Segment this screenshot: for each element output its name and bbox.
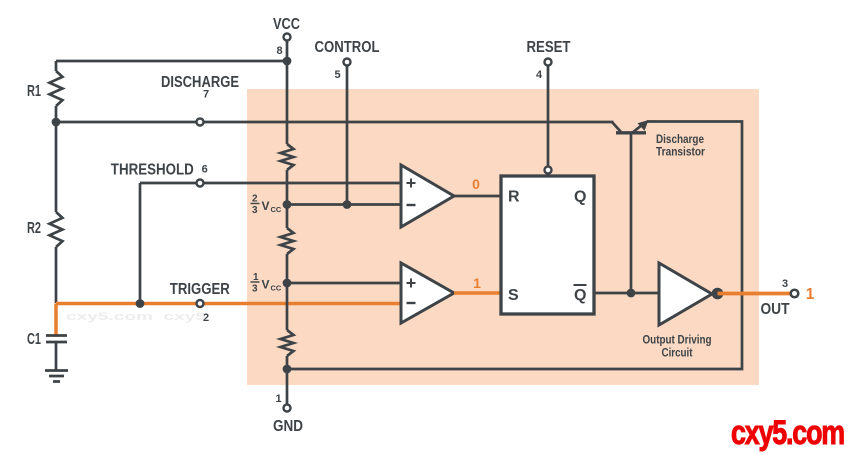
wire: R2 lead (55, 122, 58, 212)
capacitor C1 (46, 336, 67, 343)
svg-text:R: R (508, 189, 520, 206)
op-amp comparator 1 (threshold) (401, 165, 454, 227)
wire: R2 bottom lead (55, 247, 58, 303)
wire: C1 to ground (55, 342, 58, 370)
node: 1/3 Vcc (283, 279, 292, 288)
output buffer (output driving circuit) (659, 263, 712, 325)
node: output dot (712, 288, 724, 300)
terminal CONTROL pin 5 (344, 59, 351, 66)
svg-text:1: 1 (275, 393, 281, 405)
resistor R1 (50, 71, 63, 106)
svg-text:GND: GND (273, 418, 303, 435)
wire: threshold line (140, 182, 401, 185)
terminal DISCHARGE pin 7 (197, 119, 204, 126)
flip-flop U1 (501, 176, 594, 314)
terminal GND pin 1 (284, 405, 291, 412)
wire: Vcc divider chain (286, 61, 289, 144)
label 2/3 Vcc (251, 194, 282, 217)
wire (286, 170, 289, 228)
svg-text:Circuit: Circuit (662, 348, 693, 360)
resistor (divider top) (281, 144, 294, 170)
svg-text:cxy5.com: cxy5.com (731, 414, 844, 452)
terminal TRIGGER pin 2 (197, 300, 204, 307)
wire: discharge line (56, 121, 614, 124)
ground (45, 371, 68, 382)
svg-text:1: 1 (473, 275, 481, 291)
reset active-low bubble (545, 167, 552, 174)
svg-text:5: 5 (334, 69, 340, 81)
node: VCC junction (283, 57, 292, 66)
svg-text:7: 7 (203, 89, 209, 101)
svg-text:THRESHOLD: THRESHOLD (111, 162, 194, 179)
svg-text:DISCHARGE: DISCHARGE (161, 74, 239, 91)
node: control junction (343, 200, 352, 209)
svg-text:3: 3 (252, 284, 258, 295)
svg-text:OUT: OUT (761, 301, 790, 318)
svg-text:TRIGGER: TRIGGER (170, 281, 230, 298)
svg-text:8: 8 (276, 45, 282, 57)
svg-text:Q: Q (574, 287, 586, 304)
IC internal region (shaded) (247, 89, 759, 385)
terminal OUT pin 3 (791, 290, 799, 298)
svg-text:3: 3 (782, 278, 788, 290)
svg-text:6: 6 (202, 164, 208, 176)
resistor R2 (50, 212, 63, 247)
svg-text:C1: C1 (27, 331, 41, 348)
wire: transistor to Q-bar node (630, 133, 633, 293)
wire: trigger drop to C1 (orange) (54, 304, 58, 336)
svg-text:CC: CC (271, 284, 282, 293)
svg-text:V: V (262, 199, 270, 213)
svg-text:Transistor: Transistor (656, 147, 705, 159)
svg-text:VCC: VCC (273, 16, 300, 33)
wire: trigger line (orange) (56, 302, 401, 306)
svg-text:cxy5.com cxy5: cxy5.com cxy5 (66, 311, 206, 323)
svg-text:CONTROL: CONTROL (315, 39, 380, 56)
node: divider bottom junction (283, 365, 292, 374)
wire (286, 356, 289, 405)
transistor Q1 (discharge) (612, 122, 621, 132)
svg-text:RESET: RESET (527, 39, 571, 56)
wire: R1 bottom lead (55, 106, 58, 122)
svg-text:0: 0 (472, 176, 480, 192)
resistor (divider bottom) (281, 330, 294, 356)
node: threshold/trigger junction (136, 299, 145, 308)
node: R1/R2/discharge junction (52, 118, 61, 127)
svg-text:1: 1 (806, 286, 815, 303)
wire: collector loop right side (287, 122, 742, 370)
wire: 1/3 Vcc to comparator2 plus (287, 282, 401, 285)
svg-text:S: S (508, 287, 519, 304)
svg-text:R2: R2 (27, 220, 41, 237)
svg-text:CC: CC (271, 205, 282, 214)
wire: CONTROL drop (346, 66, 349, 205)
op-amp comparator 2 (trigger) (401, 263, 454, 323)
wire: VCC terminal drop (286, 41, 289, 62)
svg-text:4: 4 (536, 69, 543, 81)
wire: OUT (orange) (718, 292, 792, 296)
svg-text:R1: R1 (27, 83, 41, 100)
node: Q-bar/transistor junction (627, 289, 636, 298)
svg-text:Output Driving: Output Driving (643, 335, 712, 347)
node: 2/3 Vcc (283, 200, 292, 209)
svg-text:Q: Q (574, 189, 586, 206)
resistor (divider middle) (281, 228, 294, 254)
wire: threshold riser (139, 183, 142, 304)
terminal RESET pin 4 (545, 59, 552, 66)
label 1/3 Vcc (251, 272, 282, 295)
svg-text:3: 3 (252, 205, 258, 216)
terminal VCC pin 8 (284, 34, 291, 41)
terminal THRESHOLD pin 6 (197, 180, 204, 187)
wire: RESET drop (547, 66, 550, 167)
wire: comparator1 out to R (454, 195, 501, 198)
wire: comparator2 out to S (orange) (454, 291, 501, 295)
wire: Q-bar output line (594, 292, 659, 295)
wire: 2/3 Vcc to comparator1 minus (287, 203, 401, 206)
wire (286, 254, 289, 330)
svg-text:Discharge: Discharge (656, 134, 704, 146)
svg-text:V: V (262, 278, 270, 292)
wire: VCC top rail to R1 (56, 60, 287, 63)
wire: R1 top lead (55, 61, 58, 71)
